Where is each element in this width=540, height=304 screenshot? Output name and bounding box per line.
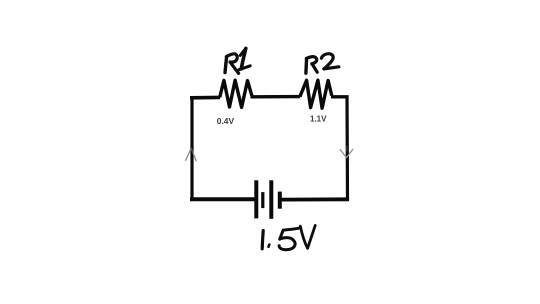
wire: bottom-right horizontal segment <box>281 197 349 201</box>
wire: top-middle horizontal segment <box>251 95 301 99</box>
label R2 (handwritten) <box>306 54 339 74</box>
battery B1 short plate (right, negative) <box>278 192 282 209</box>
battery B1 long plate (left, positive) <box>254 180 258 218</box>
svg-text:1.1V: 1.1V <box>310 115 327 124</box>
wire: bottom-left horizontal segment <box>190 197 255 201</box>
battery B1 short plate (inner left, negative) <box>261 192 264 208</box>
wire: top-right horizontal segment <box>331 95 349 98</box>
wire: top-left horizontal segment <box>190 96 220 100</box>
label R1 (handwritten) <box>225 48 250 73</box>
wire: left vertical segment <box>190 96 193 200</box>
battery B1 long plate (inner right, positive) <box>269 180 273 219</box>
svg-text:0.4V: 0.4V <box>217 116 235 126</box>
current direction arrow (up) on left wire <box>186 148 197 161</box>
wire: right vertical segment <box>345 96 349 201</box>
current direction arrow (down) on right wire <box>340 146 353 157</box>
label 1.5V battery voltage (handwritten) <box>262 225 315 249</box>
resistor R1 <box>220 80 253 107</box>
resistor R2 <box>300 80 332 108</box>
